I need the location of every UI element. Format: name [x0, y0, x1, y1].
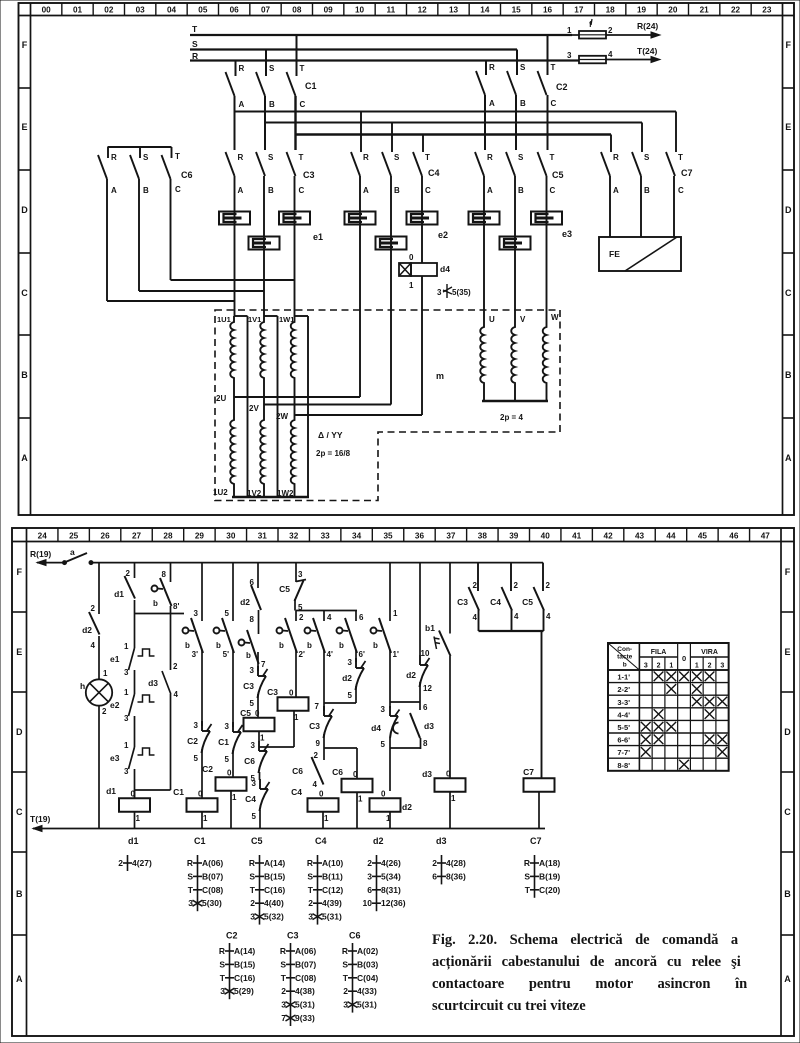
svg-text:6': 6'	[359, 650, 365, 659]
branch to C6 coil	[324, 747, 357, 749]
svg-text:R: R	[613, 153, 619, 162]
svg-text:C6: C6	[244, 756, 255, 766]
svg-text:47: 47	[761, 532, 771, 541]
svg-text:b: b	[373, 641, 378, 650]
contact C6 no	[312, 757, 324, 785]
svg-text:B(07): B(07)	[295, 959, 316, 969]
svg-text:0: 0	[319, 789, 324, 798]
contact d1 seal	[125, 576, 136, 599]
rail phase B	[265, 122, 642, 124]
wire b1 feed	[449, 563, 451, 634]
wire C1col low	[201, 749, 203, 798]
svg-text:5(34): 5(34)	[381, 871, 401, 881]
svg-text:R: R	[363, 153, 369, 162]
branch y702	[390, 701, 420, 703]
svg-text:T: T	[678, 153, 683, 162]
svg-text:3: 3	[225, 722, 230, 731]
svg-text:d2: d2	[82, 625, 92, 635]
svg-text:2': 2'	[299, 650, 305, 659]
svg-text:2: 2	[343, 986, 348, 996]
svg-text:0: 0	[381, 789, 386, 798]
contactor C7 contact T	[666, 152, 675, 176]
wire C5p down	[543, 610, 545, 631]
contact C4 no (2-4)	[502, 587, 513, 611]
svg-text:S: S	[269, 64, 275, 73]
svg-text:03: 03	[136, 6, 146, 15]
frequency unit FE	[599, 237, 681, 271]
svg-text:4: 4	[514, 612, 519, 621]
svg-text:C7: C7	[681, 168, 693, 178]
wire d4 out	[421, 276, 423, 415]
svg-text:A(06): A(06)	[295, 946, 316, 956]
svg-text:1: 1	[324, 814, 329, 823]
wire C7-R drop	[610, 135, 612, 153]
wire 12-6	[419, 682, 421, 710]
svg-text:T: T	[281, 973, 287, 983]
svg-text:T: T	[343, 973, 349, 983]
svg-text:2: 2	[314, 751, 319, 760]
svg-text:2: 2	[118, 858, 123, 868]
svg-text:B: B	[784, 889, 791, 899]
svg-text:2W: 2W	[276, 412, 288, 421]
svg-text:h: h	[80, 681, 85, 691]
svg-text:1: 1	[567, 26, 572, 35]
svg-text:C: C	[550, 186, 556, 195]
svg-text:38: 38	[478, 532, 488, 541]
contact C5 no (2-4)	[534, 587, 545, 611]
wire b7 stub	[389, 563, 391, 621]
svg-text:D: D	[785, 205, 792, 215]
svg-text:C5: C5	[552, 170, 564, 180]
wire e3-coil	[134, 769, 136, 798]
svg-text:T: T	[550, 153, 555, 162]
svg-text:2: 2	[608, 26, 613, 35]
svg-text:10: 10	[355, 6, 365, 15]
svg-text:5(31): 5(31)	[357, 1000, 377, 1010]
svg-text:T: T	[175, 152, 180, 161]
svg-text:2: 2	[367, 858, 372, 868]
svg-text:2: 2	[299, 613, 304, 622]
wire C7-S drop	[641, 123, 643, 153]
svg-text:d2: d2	[406, 670, 416, 680]
svg-text:e1: e1	[110, 654, 120, 664]
svg-text:R: R	[187, 858, 193, 868]
contactor C4 contact R	[351, 152, 360, 176]
svg-text:24: 24	[38, 532, 48, 541]
svg-text:3: 3	[194, 721, 199, 730]
svg-text:C1: C1	[218, 737, 229, 747]
wire C3p down	[478, 610, 480, 631]
svg-text:FE: FE	[609, 249, 620, 259]
svg-text:C2: C2	[556, 82, 568, 92]
svg-text:R: R	[239, 64, 245, 73]
svg-text:e2: e2	[110, 700, 120, 710]
xref d2	[376, 855, 378, 911]
svg-text:09: 09	[324, 6, 334, 15]
svg-text:S: S	[280, 959, 286, 969]
svg-text:6: 6	[359, 613, 364, 622]
contactor C2 contact R	[476, 71, 485, 95]
wire d3 coil col	[449, 656, 451, 778]
svg-text:R: R	[489, 63, 495, 72]
svg-text:C(08): C(08)	[295, 973, 316, 983]
svg-text:A(14): A(14)	[234, 946, 255, 956]
wire C2-B out	[515, 95, 517, 150]
svg-text:T: T	[300, 64, 305, 73]
svg-text:3: 3	[343, 1000, 348, 1010]
wire b6 out	[355, 650, 357, 662]
svg-text:A: A	[613, 186, 619, 195]
svg-text:5': 5'	[223, 650, 229, 659]
svg-text:5(35): 5(35)	[452, 288, 471, 297]
svg-text:C: C	[300, 100, 306, 109]
contactor C1 contact T	[287, 72, 296, 96]
svg-text:2: 2	[173, 662, 178, 671]
contact d3 parallel	[162, 671, 171, 694]
svg-text:5-5': 5-5'	[617, 723, 630, 732]
svg-text:21: 21	[700, 6, 710, 15]
svg-text:d1: d1	[114, 589, 124, 599]
svg-text:3': 3'	[192, 650, 198, 659]
svg-text:C7: C7	[530, 836, 542, 846]
branch y748	[390, 747, 420, 749]
contactor C6 tick R	[107, 147, 109, 158]
svg-text:A: A	[239, 100, 245, 109]
wire C7-A out	[609, 176, 611, 237]
svg-text:3: 3	[220, 986, 225, 996]
svg-text:C1: C1	[194, 836, 206, 846]
thermal e3 element C	[546, 176, 548, 325]
svg-text:C4: C4	[315, 836, 327, 846]
thermal contact e2	[129, 694, 135, 716]
wire C2-A out	[484, 95, 486, 150]
svg-text:3: 3	[250, 912, 255, 922]
rail phase A	[235, 111, 677, 113]
wire b4 out	[295, 650, 297, 698]
svg-text:A: A	[21, 453, 28, 463]
wire C5col to rail	[259, 810, 261, 829]
wire arrow T(24)	[651, 57, 660, 63]
svg-text:2: 2	[473, 581, 478, 590]
svg-text:0: 0	[227, 768, 232, 777]
svg-text:02: 02	[104, 6, 114, 15]
svg-text:C(04): C(04)	[357, 973, 378, 983]
svg-text:3: 3	[281, 1000, 286, 1010]
winding V	[511, 325, 515, 401]
svg-text:B: B	[394, 186, 400, 195]
svg-text:B: B	[143, 186, 149, 195]
svg-text:1W1: 1W1	[279, 315, 294, 324]
contact C3 no (2-4)	[469, 587, 480, 611]
svg-text:B: B	[520, 99, 526, 108]
wire C2col mid	[232, 650, 234, 727]
wire C6-B out	[138, 179, 140, 291]
svg-text:1: 1	[409, 281, 414, 290]
svg-text:4(27): 4(27)	[132, 858, 152, 868]
svg-text:S: S	[644, 153, 650, 162]
svg-text:scurtcircuit cu trei viteze: scurtcircuit cu trei viteze	[432, 998, 586, 1014]
wire b3 out	[257, 652, 259, 671]
contactor C3 contact S	[256, 152, 265, 176]
svg-text:16: 16	[543, 6, 553, 15]
svg-text:a: a	[70, 547, 75, 557]
svg-text:e3: e3	[110, 753, 120, 763]
control rail bottom	[33, 828, 545, 830]
svg-text:3: 3	[124, 668, 129, 677]
svg-text:T: T	[188, 885, 194, 895]
svg-text:A: A	[487, 186, 493, 195]
wire b6 corner	[355, 686, 357, 703]
svg-text:C(08): C(08)	[202, 885, 223, 895]
svg-text:d1: d1	[106, 786, 116, 796]
contactor C6 bridge cap	[108, 146, 172, 148]
svg-text:contactoare pentru motor asinc: contactoare pentru motor asincron în	[432, 976, 747, 992]
wire e chain	[134, 614, 136, 649]
svg-text:8: 8	[162, 570, 167, 579]
contact d3 branch top	[170, 614, 172, 671]
svg-text:3: 3	[720, 663, 724, 670]
contactor C6 contact R	[98, 155, 107, 179]
rail phase C	[296, 133, 612, 135]
svg-text:Fig. 2.20. Schema electrică de: Fig. 2.20. Schema electrică de comandă a	[432, 932, 739, 948]
wire C4p stub	[510, 563, 512, 591]
svg-text:A: A	[784, 974, 791, 984]
svg-text:B: B	[518, 186, 524, 195]
svg-text:05: 05	[198, 6, 208, 15]
svg-text:27: 27	[132, 532, 142, 541]
svg-text:e1: e1	[313, 232, 323, 242]
contactor C7 contact S	[632, 152, 641, 176]
svg-text:3: 3	[308, 912, 313, 922]
svg-text:01: 01	[73, 6, 83, 15]
svg-text:1: 1	[136, 814, 141, 823]
svg-text:R: R	[487, 153, 493, 162]
svg-text:2: 2	[102, 707, 107, 716]
svg-text:b: b	[339, 641, 344, 650]
wire e1-e2	[134, 670, 136, 694]
wire C2col low	[232, 750, 234, 777]
svg-text:S: S	[268, 153, 274, 162]
thermal e1 element C	[294, 176, 296, 316]
wire C3p stub	[477, 563, 479, 591]
svg-text:5: 5	[250, 699, 255, 708]
svg-text:1V1: 1V1	[248, 315, 261, 324]
svg-text:A: A	[785, 453, 792, 463]
wire b4 stub	[295, 611, 297, 622]
svg-text:A: A	[238, 186, 244, 195]
svg-text:33: 33	[321, 532, 331, 541]
wire C6-A out	[106, 179, 108, 301]
svg-text:2p = 16/8: 2p = 16/8	[316, 449, 351, 458]
svg-text:b1: b1	[425, 623, 435, 633]
svg-text:0: 0	[131, 789, 136, 798]
svg-text:39: 39	[509, 532, 519, 541]
svg-text:29: 29	[195, 532, 205, 541]
svg-text:2-2': 2-2'	[617, 685, 630, 694]
svg-text:0: 0	[682, 654, 686, 663]
wire C7-B out	[640, 176, 642, 237]
svg-text:S: S	[187, 871, 193, 881]
svg-text:C3: C3	[287, 931, 299, 941]
svg-text:d2: d2	[240, 597, 250, 607]
xref C5	[259, 855, 261, 925]
svg-text:5(30): 5(30)	[202, 898, 222, 908]
wire C2-C out	[547, 95, 549, 150]
svg-text:C5: C5	[240, 708, 251, 718]
wire d1 top	[134, 563, 136, 578]
svg-text:2: 2	[432, 858, 437, 868]
svg-text:07: 07	[261, 6, 271, 15]
svg-text:C: C	[175, 185, 181, 194]
svg-text:1: 1	[358, 794, 363, 803]
svg-text:06: 06	[230, 6, 240, 15]
thermal e3 element B	[514, 176, 516, 325]
svg-text:1': 1'	[393, 650, 399, 659]
wire C5col top	[257, 563, 259, 588]
contactor C2 contact T	[538, 71, 547, 95]
svg-text:25: 25	[69, 532, 79, 541]
svg-text:S: S	[219, 959, 225, 969]
wire 9-2	[323, 734, 325, 760]
svg-text:1: 1	[393, 609, 398, 618]
svg-text:0: 0	[409, 253, 414, 262]
svg-text:F: F	[17, 567, 23, 577]
svg-text:1-1': 1-1'	[617, 673, 630, 682]
contact d3 no	[410, 713, 420, 738]
svg-text:28: 28	[163, 532, 173, 541]
svg-text:A: A	[16, 974, 23, 984]
wire C2 S drop	[516, 50, 518, 76]
svg-text:13: 13	[449, 6, 459, 15]
contact C3 nc	[257, 666, 259, 676]
contactor C4 contact S	[382, 152, 391, 176]
wire C4-S stub	[391, 123, 393, 153]
svg-text:1: 1	[669, 663, 673, 670]
svg-text:C6: C6	[292, 766, 303, 776]
winding 1U	[230, 316, 234, 497]
relay coil d2	[370, 798, 401, 812]
svg-text:12: 12	[423, 684, 432, 693]
svg-text:R: R	[238, 153, 244, 162]
svg-text:A: A	[489, 99, 495, 108]
svg-text:8: 8	[250, 615, 255, 624]
svg-text:2U: 2U	[216, 394, 226, 403]
svg-text:0: 0	[255, 709, 260, 718]
wire C5col b3	[258, 610, 260, 634]
contactor C7 contact R	[601, 152, 610, 176]
svg-text:T: T	[308, 885, 314, 895]
svg-text:B: B	[268, 186, 274, 195]
svg-text:0: 0	[198, 789, 203, 798]
controller contact table FILA/VIRA	[608, 643, 729, 771]
svg-text:4: 4	[608, 50, 613, 59]
svg-text:5: 5	[225, 755, 230, 764]
bus S	[190, 48, 517, 50]
winding 1V	[260, 316, 264, 497]
svg-text:3: 3	[298, 570, 303, 579]
svg-text:3: 3	[367, 871, 372, 881]
svg-text:C4: C4	[428, 168, 440, 178]
xref C1	[197, 855, 199, 911]
svg-text:A(18): A(18)	[539, 858, 560, 868]
svg-text:A(06): A(06)	[202, 858, 223, 868]
svg-text:W: W	[551, 313, 559, 322]
contact C1 nc	[232, 722, 234, 732]
svg-text:C7: C7	[523, 767, 534, 777]
motor dashed outline	[215, 310, 560, 501]
svg-text:3: 3	[194, 609, 199, 618]
svg-text:3: 3	[124, 714, 129, 723]
tap 2W	[295, 414, 423, 416]
wire C5p stub	[542, 563, 544, 591]
svg-text:3-3': 3-3'	[617, 698, 630, 707]
svg-text:3: 3	[252, 779, 257, 788]
xref d3	[441, 855, 443, 884]
bus T	[190, 34, 572, 36]
svg-text:R: R	[342, 946, 348, 956]
svg-text:3: 3	[567, 51, 572, 60]
svg-text:2V: 2V	[249, 404, 259, 413]
svg-text:C6: C6	[332, 767, 343, 777]
relay d4 coil	[399, 263, 411, 276]
tap 2U	[234, 396, 360, 398]
wire lamp to rail	[98, 706, 100, 829]
svg-text:5(31): 5(31)	[295, 1000, 315, 1010]
svg-text:C5: C5	[522, 597, 533, 607]
svg-text:22: 22	[731, 6, 741, 15]
svg-text:e3: e3	[562, 229, 572, 239]
svg-text:44: 44	[666, 532, 676, 541]
wire C1-B out	[264, 96, 266, 150]
svg-text:20: 20	[668, 6, 678, 15]
wire b8 branch	[170, 563, 172, 582]
fuse f 3-4	[579, 56, 606, 64]
contactor C3 contact T	[287, 152, 296, 176]
svg-text:C5: C5	[279, 584, 290, 594]
contact C3 nc (7-9)	[323, 706, 325, 716]
svg-text:S: S	[342, 959, 348, 969]
svg-text:T: T	[425, 153, 430, 162]
svg-text:d3: d3	[422, 769, 432, 779]
svg-text:1U1: 1U1	[217, 315, 231, 324]
svg-text:D: D	[784, 727, 791, 737]
svg-text:C2: C2	[202, 764, 213, 774]
wire C5no out	[294, 599, 296, 611]
thermal e1 element B	[263, 176, 265, 316]
wire b1 col	[419, 563, 421, 655]
svg-text:9(33): 9(33)	[295, 1013, 315, 1023]
contact b 16-6'	[337, 628, 343, 634]
svg-text:D: D	[21, 205, 28, 215]
svg-text:S: S	[520, 63, 526, 72]
svg-text:5: 5	[194, 754, 199, 763]
wire to C5 coil	[257, 694, 259, 718]
svg-text:S: S	[143, 153, 149, 162]
svg-text:E: E	[21, 122, 27, 132]
svg-text:T(24): T(24)	[637, 46, 657, 56]
thermal contact e3	[129, 747, 135, 769]
contact b 5-5'	[214, 628, 220, 634]
svg-text:6: 6	[367, 885, 372, 895]
svg-text:37: 37	[446, 532, 456, 541]
svg-text:A(14): A(14)	[264, 858, 285, 868]
svg-text:R: R	[249, 858, 255, 868]
svg-text:35: 35	[383, 532, 393, 541]
wire b6 stub	[355, 611, 357, 622]
contact C2 nc	[201, 721, 203, 731]
svg-text:7-7': 7-7'	[617, 748, 630, 757]
svg-text:T(19): T(19)	[30, 814, 50, 824]
